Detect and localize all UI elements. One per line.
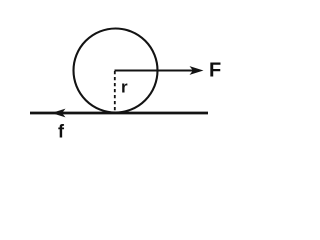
friction arrowhead (left) bbox=[52, 109, 66, 118]
ball (circle) bbox=[74, 29, 158, 113]
svg-text:f: f bbox=[58, 122, 65, 142]
svg-text:F: F bbox=[209, 60, 221, 82]
radius dashed line bbox=[114, 71, 116, 112]
force arrowhead (right) bbox=[190, 66, 204, 75]
svg-text:r: r bbox=[121, 78, 128, 97]
ground surface line bbox=[30, 112, 208, 115]
force arrow shaft F bbox=[115, 69, 195, 71]
